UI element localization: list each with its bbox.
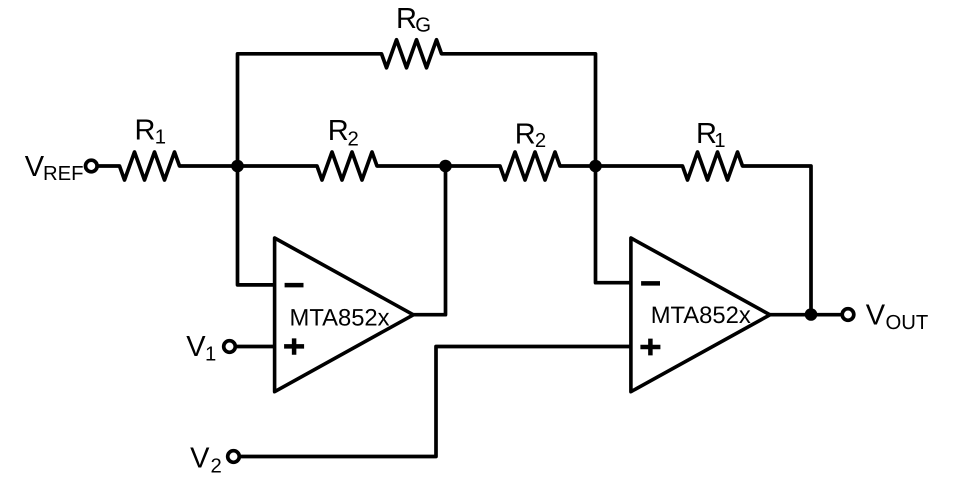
svg-text:REF: REF <box>43 163 84 185</box>
svg-text:2: 2 <box>211 456 222 478</box>
svg-text:V: V <box>25 151 45 183</box>
svg-text:1: 1 <box>155 127 166 149</box>
svg-text:G: G <box>415 14 431 36</box>
svg-text:MTA852x: MTA852x <box>651 302 751 329</box>
svg-text:V: V <box>866 299 886 331</box>
svg-text:V: V <box>190 443 210 475</box>
svg-text:V: V <box>186 331 206 363</box>
svg-text:1: 1 <box>205 343 216 365</box>
svg-text:R: R <box>328 115 349 147</box>
svg-text:R: R <box>396 3 417 35</box>
svg-text:2: 2 <box>535 130 546 152</box>
svg-text:OUT: OUT <box>886 312 929 334</box>
svg-text:R: R <box>135 114 156 146</box>
svg-text:R: R <box>515 119 536 151</box>
svg-text:MTA852x: MTA852x <box>290 304 390 331</box>
svg-text:1: 1 <box>714 130 725 152</box>
svg-text:2: 2 <box>348 128 359 150</box>
